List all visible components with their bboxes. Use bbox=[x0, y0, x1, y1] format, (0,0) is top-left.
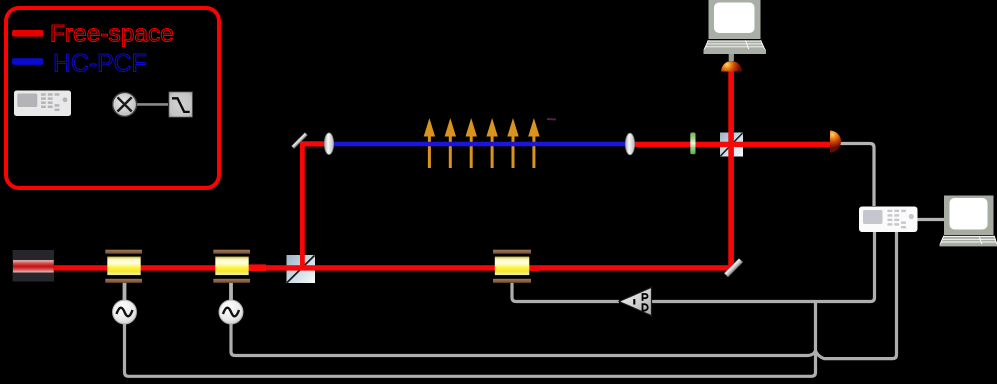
stem laptop1 to D1 bbox=[729, 50, 734, 61]
laptop 1 bbox=[704, 0, 767, 54]
red beam stub after AOM2 bbox=[249, 264, 266, 271]
mirror A bbox=[292, 133, 308, 149]
legend blue swatch bbox=[12, 58, 44, 65]
wire detector D2 to instrument top bbox=[840, 144, 874, 207]
PID controller triangle bbox=[619, 287, 652, 315]
laptop 2 bbox=[940, 196, 997, 247]
green filter bbox=[690, 133, 695, 155]
beamsplitter cube 1 bbox=[287, 255, 316, 283]
legend low-pass filter icon bbox=[169, 92, 192, 117]
wire PID output to instrument bottom bbox=[651, 232, 875, 302]
oscillator 1 bbox=[113, 300, 137, 324]
instrument (frequency counter) bbox=[859, 207, 918, 233]
wire AOM1 to osc1 bbox=[123, 281, 127, 302]
laser source box bbox=[13, 250, 55, 282]
detector D1 (top, dome up) bbox=[721, 61, 742, 71]
red beam mirror A to lens1 bbox=[300, 141, 328, 146]
legend signal generator icon bbox=[14, 91, 71, 117]
blue HC-PCF fiber bbox=[333, 142, 627, 147]
red beam step nub after EOM3 bbox=[530, 266, 539, 271]
wire instrument to laptop2 bbox=[917, 218, 945, 221]
oscillator 2 bbox=[219, 300, 243, 324]
beamsplitter cube 2 bbox=[720, 133, 743, 157]
svg-text:HC-PCF: HC-PCF bbox=[53, 50, 147, 77]
legend red swatch bbox=[12, 30, 44, 37]
lens 2 bbox=[625, 133, 634, 155]
red beam mirror B up to detector D1 bbox=[728, 71, 734, 267]
orange modulation arrows over fiber bbox=[424, 118, 540, 168]
EOM3 bbox=[493, 250, 531, 283]
wire AOM2 to osc2 bbox=[229, 281, 233, 302]
lens 1 bbox=[324, 133, 333, 155]
legend box bbox=[6, 8, 219, 188]
AOM2 bbox=[213, 250, 250, 283]
purple artifact bbox=[547, 118, 556, 121]
red beam laser to mirror B bbox=[53, 265, 733, 270]
legend mixer icon bbox=[113, 92, 137, 116]
legend mixer-filter wire bbox=[137, 103, 168, 106]
wire EOM3 to PID apex bbox=[512, 282, 619, 302]
red beam lens2 to detector D2 bbox=[633, 142, 830, 147]
wire osc2 to instrument: down, right, hop over, right, up bbox=[231, 232, 897, 359]
svg-text:Free-space: Free-space bbox=[50, 21, 174, 48]
detector D2 (right, dome right) bbox=[830, 131, 841, 153]
AOM1 bbox=[105, 250, 142, 283]
wire osc1 to PID-line: down, right along bottom, up bbox=[125, 302, 816, 377]
mirror B bbox=[724, 258, 743, 277]
red beam cube1 up to mirror A bbox=[300, 144, 305, 270]
